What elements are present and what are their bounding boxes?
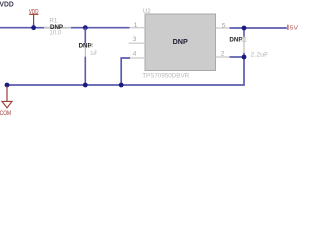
node ground junction	[5, 83, 10, 88]
svg-text:TPS70950DBVR: TPS70950DBVR	[142, 73, 189, 80]
svg-text:1: 1	[134, 22, 138, 29]
svg-text:3: 3	[133, 36, 137, 43]
wire net VDD to R1	[0, 27, 46, 29]
wire pin4 corner	[121, 58, 130, 85]
power port +5V	[288, 25, 298, 32]
wire pin2 to C1	[230, 56, 245, 58]
pin 1	[130, 27, 146, 29]
svg-text:U2: U2	[143, 8, 151, 15]
svg-text:C1: C1	[241, 36, 247, 43]
node C1 bottom junction	[242, 55, 247, 60]
pin 2	[216, 56, 230, 58]
node C4 rail junction	[83, 83, 88, 88]
svg-text:COM: COM	[0, 110, 11, 117]
pin 3	[129, 42, 145, 44]
node R1/C4/pin1 junction	[83, 25, 88, 30]
wire C1 to ground rail	[7, 57, 244, 85]
node pin4 rail junction	[119, 83, 124, 88]
svg-text:2: 2	[221, 51, 225, 58]
svg-text:4: 4	[133, 51, 137, 58]
wire pin5 to +5V	[230, 27, 287, 29]
resistor R1 (DNP, greyed body)	[44, 27, 71, 29]
pin 4	[130, 57, 146, 59]
svg-text:2.2uF: 2.2uF	[251, 51, 269, 58]
svg-text:C4: C4	[89, 43, 94, 50]
power port VDD	[29, 9, 39, 24]
svg-text:1uF: 1uF	[90, 50, 97, 57]
node C1 top junction	[242, 26, 247, 31]
capacitor C1 (DNP) branch	[243, 28, 245, 37]
svg-text:5V: 5V	[290, 26, 299, 32]
capacitor C4 (DNP) branch	[84, 28, 86, 44]
node VDD junction	[31, 25, 36, 30]
svg-text:DNP: DNP	[173, 37, 188, 46]
svg-text:5: 5	[222, 23, 226, 30]
svg-text:VDD: VDD	[0, 2, 14, 9]
regulator U2 (TPS70950DBVR)	[145, 14, 216, 71]
ground COM	[0, 86, 12, 117]
pin 5	[216, 27, 230, 29]
wire VDD stub	[33, 24, 35, 28]
svg-text:10.0: 10.0	[49, 29, 62, 36]
wire R1 to pin1	[71, 27, 130, 29]
